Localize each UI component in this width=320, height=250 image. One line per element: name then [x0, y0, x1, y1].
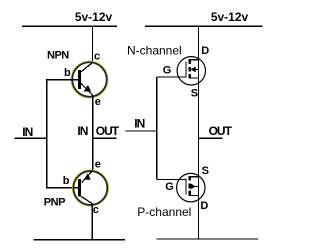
wire gate column: [156, 77, 158, 179]
svg-text:S: S: [191, 87, 198, 99]
wire NPN base lead: [46, 79, 78, 81]
wire right top rail: [145, 25, 263, 27]
transistor U1 N-channel MOSFET: [177, 57, 205, 85]
wire left bottom rail: [33, 239, 125, 241]
wire N-ch gate lead: [157, 76, 186, 78]
wire middle output column: [92, 96, 94, 172]
transistor U2 P-channel MOSFET: [177, 173, 205, 201]
svg-text:PNP: PNP: [44, 196, 65, 208]
wire OUT lead (middle): [93, 137, 117, 139]
svg-text:e: e: [95, 96, 101, 108]
svg-text:D: D: [201, 45, 209, 57]
svg-text:e: e: [95, 159, 101, 171]
svg-text:G: G: [163, 64, 172, 76]
svg-text:c: c: [94, 51, 100, 63]
wire P-ch gate lead: [157, 178, 186, 180]
svg-text:P-channel: P-channel: [137, 205, 191, 219]
svg-text:b: b: [64, 67, 71, 79]
svg-text:OUT: OUT: [96, 124, 120, 138]
svg-text:b: b: [63, 175, 70, 187]
wire right output column: [197, 26, 199, 239]
svg-text:D: D: [200, 200, 208, 212]
svg-text:NPN: NPN: [47, 50, 69, 62]
wire IN lead (right): [126, 130, 157, 132]
svg-text:IN: IN: [77, 124, 87, 138]
wire input column (left): [46, 79, 48, 188]
svg-text:IN: IN: [134, 116, 144, 130]
svg-text:IN: IN: [22, 125, 32, 139]
transistor Q1 NPN: [71, 61, 107, 97]
wire IN lead (left): [15, 137, 47, 139]
svg-text:N-channel: N-channel: [127, 43, 182, 57]
wire left top rail: [22, 25, 117, 27]
wire OUT lead (right): [198, 137, 222, 139]
wire PNP collector drop: [91, 204, 93, 240]
wire NPN collector drop: [91, 26, 93, 63]
svg-text:5v-12v: 5v-12v: [211, 10, 249, 24]
svg-text:OUT: OUT: [209, 124, 233, 138]
wire right bottom rail: [157, 238, 258, 240]
wire PNP base lead: [46, 187, 79, 189]
svg-text:c: c: [93, 204, 99, 216]
svg-text:G: G: [165, 181, 174, 193]
svg-text:5v-12v: 5v-12v: [75, 10, 113, 24]
svg-text:S: S: [202, 165, 209, 177]
transistor Q2 PNP: [73, 170, 109, 206]
